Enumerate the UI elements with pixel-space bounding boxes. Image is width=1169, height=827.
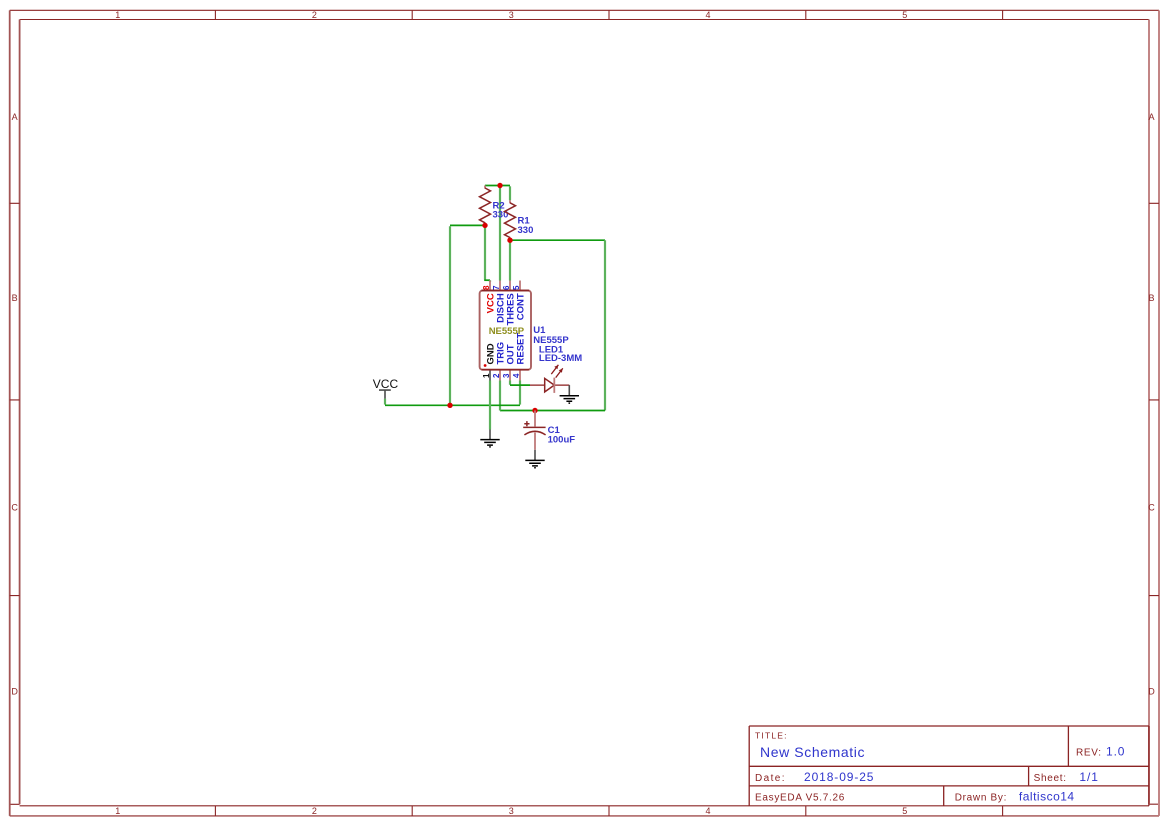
svg-text:EasyEDA V5.7.26: EasyEDA V5.7.26 [755, 792, 845, 803]
svg-text:330: 330 [518, 225, 534, 236]
IC U1 NE555P [480, 281, 531, 381]
wire [510, 384, 530, 386]
junction [497, 183, 502, 188]
wire [499, 186, 501, 280]
wire [499, 381, 501, 411]
svg-text:B: B [1148, 293, 1154, 303]
svg-text:3: 3 [509, 10, 514, 20]
wire [509, 186, 511, 200]
svg-text:VCC: VCC [373, 377, 399, 391]
svg-text:8: 8 [482, 285, 491, 290]
svg-text:5: 5 [902, 806, 907, 816]
resistor R2 [480, 186, 491, 226]
wire [385, 404, 520, 406]
ground [480, 430, 499, 447]
ground [525, 450, 544, 468]
svg-text:Drawn By:: Drawn By: [955, 792, 1007, 803]
svg-text:100uF: 100uF [548, 434, 576, 445]
junction [447, 403, 452, 408]
title block [749, 726, 1149, 806]
svg-text:C: C [1148, 502, 1155, 512]
svg-text:1: 1 [115, 806, 120, 816]
capacitor C1 [523, 411, 545, 450]
svg-text:7: 7 [492, 285, 501, 290]
svg-text:D: D [11, 687, 18, 697]
wire [509, 241, 511, 281]
wire [489, 280, 491, 282]
junction [482, 223, 487, 228]
svg-text:4: 4 [512, 373, 521, 378]
svg-text:faltisco14: faltisco14 [1019, 789, 1075, 803]
wire [484, 226, 486, 279]
svg-text:3: 3 [509, 806, 514, 816]
ground [560, 385, 579, 403]
svg-text:2: 2 [312, 806, 317, 816]
wire [510, 239, 605, 241]
wire [384, 399, 386, 405]
svg-text:1: 1 [115, 10, 120, 20]
wire [509, 381, 511, 385]
svg-text:1.0: 1.0 [1106, 745, 1125, 759]
wire [489, 381, 491, 430]
svg-text:CONT: CONT [516, 293, 527, 320]
CIRCUIT [373, 183, 605, 468]
svg-text:NE555P: NE555P [489, 326, 525, 337]
LED LED1 [530, 365, 569, 393]
svg-text:B: B [12, 293, 18, 303]
junction [507, 238, 512, 243]
svg-text:Sheet:: Sheet: [1034, 773, 1067, 784]
wire [484, 279, 490, 281]
wire [500, 410, 605, 412]
net flag VCC [373, 377, 399, 399]
svg-text:A: A [1148, 112, 1154, 122]
svg-text:2: 2 [312, 10, 317, 20]
svg-text:New Schematic: New Schematic [760, 744, 865, 760]
svg-text:1/1: 1/1 [1079, 770, 1098, 784]
svg-text:TITLE:: TITLE: [755, 731, 788, 741]
wire [604, 240, 606, 410]
svg-text:4: 4 [705, 806, 710, 816]
svg-text:D: D [1148, 687, 1155, 697]
svg-text:2: 2 [492, 373, 501, 378]
svg-text:3: 3 [502, 373, 511, 378]
svg-text:2018-09-25: 2018-09-25 [804, 770, 874, 784]
svg-text:C: C [11, 502, 18, 512]
svg-text:REV:: REV: [1076, 748, 1102, 759]
wire [449, 226, 451, 405]
svg-text:5: 5 [902, 10, 907, 20]
junction [532, 408, 537, 413]
svg-text:LED-3MM: LED-3MM [539, 353, 582, 364]
svg-text:A: A [12, 112, 18, 122]
svg-text:5: 5 [512, 285, 521, 290]
svg-text:4: 4 [705, 10, 710, 20]
wire [450, 224, 485, 226]
resistor R1 [505, 200, 516, 240]
svg-text:Date:: Date: [755, 773, 786, 784]
wire [485, 185, 510, 187]
svg-text:6: 6 [502, 285, 511, 290]
svg-text:1: 1 [482, 373, 491, 378]
wire [519, 381, 521, 405]
svg-text:RESET: RESET [516, 333, 527, 365]
